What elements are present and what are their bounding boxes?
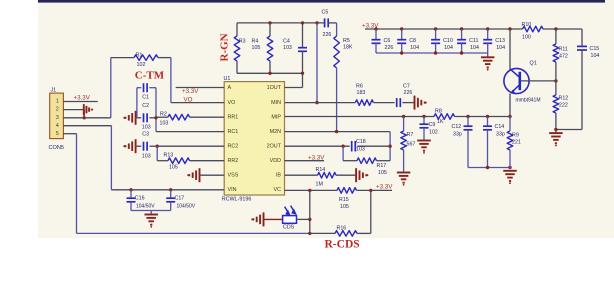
svg-text:C8: C8	[409, 38, 416, 44]
svg-text:C18: C18	[356, 139, 366, 145]
svg-text:CDS: CDS	[283, 225, 295, 231]
svg-text:+3.3V: +3.3V	[308, 155, 325, 162]
svg-text:226: 226	[385, 45, 394, 51]
svg-text:mmbt941M: mmbt941M	[516, 98, 541, 104]
svg-text:R-GN: R-GN	[219, 33, 231, 61]
svg-text:104/50V: 104/50V	[177, 204, 196, 210]
svg-text:C11: C11	[469, 38, 478, 44]
svg-text:+3.3V: +3.3V	[74, 95, 91, 102]
svg-text:105: 105	[340, 204, 349, 210]
svg-text:R16: R16	[337, 226, 347, 232]
svg-text:Q1: Q1	[530, 61, 537, 67]
svg-text:105: 105	[169, 165, 178, 171]
svg-text:104: 104	[496, 45, 505, 51]
svg-text:+3.3V: +3.3V	[376, 184, 393, 191]
svg-text:R9: R9	[512, 133, 519, 139]
svg-text:226: 226	[404, 90, 413, 96]
svg-text:R7: R7	[407, 132, 414, 138]
svg-text:103: 103	[142, 154, 151, 160]
svg-text:1M: 1M	[316, 181, 323, 187]
svg-text:C7: C7	[403, 84, 410, 90]
svg-text:C17: C17	[175, 196, 185, 202]
svg-text:226: 226	[323, 32, 332, 38]
svg-text:R13: R13	[164, 153, 174, 159]
svg-text:104: 104	[591, 53, 600, 59]
svg-text:R8: R8	[435, 109, 442, 115]
svg-text:102: 102	[429, 129, 438, 135]
svg-text:C14: C14	[495, 124, 505, 130]
svg-text:R15: R15	[339, 197, 349, 203]
svg-text:R-CDS: R-CDS	[325, 239, 360, 251]
svg-text:M2N: M2N	[270, 129, 281, 135]
svg-text:R14: R14	[316, 167, 326, 173]
svg-text:C6: C6	[384, 38, 391, 44]
svg-text:MIP: MIP	[271, 115, 281, 121]
svg-text:+3.3V: +3.3V	[182, 88, 199, 95]
svg-text:567: 567	[407, 142, 416, 148]
svg-text:RC1: RC1	[228, 129, 239, 135]
svg-text:1K: 1K	[437, 119, 444, 125]
svg-text:VDD: VDD	[270, 158, 281, 164]
svg-text:C3: C3	[142, 132, 149, 138]
svg-text:18K: 18K	[343, 45, 353, 51]
svg-text:J1: J1	[51, 88, 57, 94]
svg-text:4: 4	[56, 123, 59, 129]
svg-text:C4: C4	[283, 39, 290, 45]
svg-text:103: 103	[356, 146, 365, 152]
svg-text:104: 104	[410, 45, 419, 51]
svg-text:103: 103	[283, 45, 292, 51]
svg-text:1: 1	[56, 99, 59, 105]
svg-text:C2: C2	[142, 103, 149, 109]
svg-text:R5: R5	[343, 38, 350, 44]
svg-text:C12: C12	[452, 124, 462, 130]
svg-text:221: 221	[512, 140, 521, 146]
svg-text:222: 222	[559, 103, 568, 109]
svg-text:105: 105	[252, 45, 261, 51]
svg-text:R12: R12	[559, 96, 569, 102]
svg-text:IB: IB	[276, 173, 281, 179]
svg-text:R10: R10	[522, 22, 532, 28]
svg-text:5: 5	[56, 131, 59, 137]
svg-text:104/50V: 104/50V	[136, 204, 155, 210]
svg-text:CON5: CON5	[49, 145, 65, 151]
svg-text:104: 104	[444, 45, 453, 51]
svg-text:RCWL-9196: RCWL-9196	[222, 197, 252, 203]
svg-text:VO: VO	[184, 97, 193, 104]
svg-text:2OUT: 2OUT	[267, 144, 282, 150]
svg-text:102: 102	[137, 62, 146, 68]
svg-text:C10: C10	[443, 38, 453, 44]
svg-text:1OUT: 1OUT	[267, 85, 282, 91]
svg-text:VC: VC	[274, 187, 282, 193]
svg-text:105: 105	[378, 170, 387, 176]
svg-text:MIN: MIN	[271, 100, 281, 106]
svg-text:R6: R6	[356, 84, 363, 90]
svg-text:RC2: RC2	[228, 144, 239, 150]
svg-text:104: 104	[470, 45, 479, 51]
svg-text:C15: C15	[590, 46, 600, 52]
svg-text:U1: U1	[224, 76, 231, 82]
svg-text:3: 3	[56, 115, 59, 121]
svg-text:R1: R1	[136, 53, 143, 59]
svg-text:R11: R11	[559, 47, 568, 53]
svg-text:C9: C9	[429, 122, 436, 128]
svg-text:33p: 33p	[453, 132, 462, 138]
svg-text:VIN: VIN	[228, 187, 237, 193]
svg-text:C1: C1	[142, 95, 149, 101]
svg-text:VSS: VSS	[228, 173, 239, 179]
svg-text:VO: VO	[228, 100, 236, 106]
svg-text:C16: C16	[135, 196, 145, 202]
svg-text:2: 2	[56, 107, 59, 113]
svg-text:RR1: RR1	[228, 115, 239, 121]
svg-text:RR2: RR2	[228, 158, 239, 164]
svg-text:R2: R2	[160, 111, 167, 117]
svg-text:103: 103	[160, 121, 169, 127]
svg-text:183: 183	[357, 90, 366, 96]
svg-text:33p: 33p	[496, 132, 505, 138]
svg-text:C5: C5	[322, 10, 329, 16]
svg-text:C-TM: C-TM	[135, 69, 165, 81]
svg-text:100: 100	[522, 34, 531, 40]
svg-text:472: 472	[559, 53, 568, 59]
svg-text:C13: C13	[495, 38, 505, 44]
svg-text:R17: R17	[377, 163, 387, 169]
svg-text:R4: R4	[252, 39, 259, 45]
svg-text:R3: R3	[239, 39, 246, 45]
svg-text:A: A	[228, 85, 232, 91]
svg-text:103: 103	[142, 125, 151, 131]
